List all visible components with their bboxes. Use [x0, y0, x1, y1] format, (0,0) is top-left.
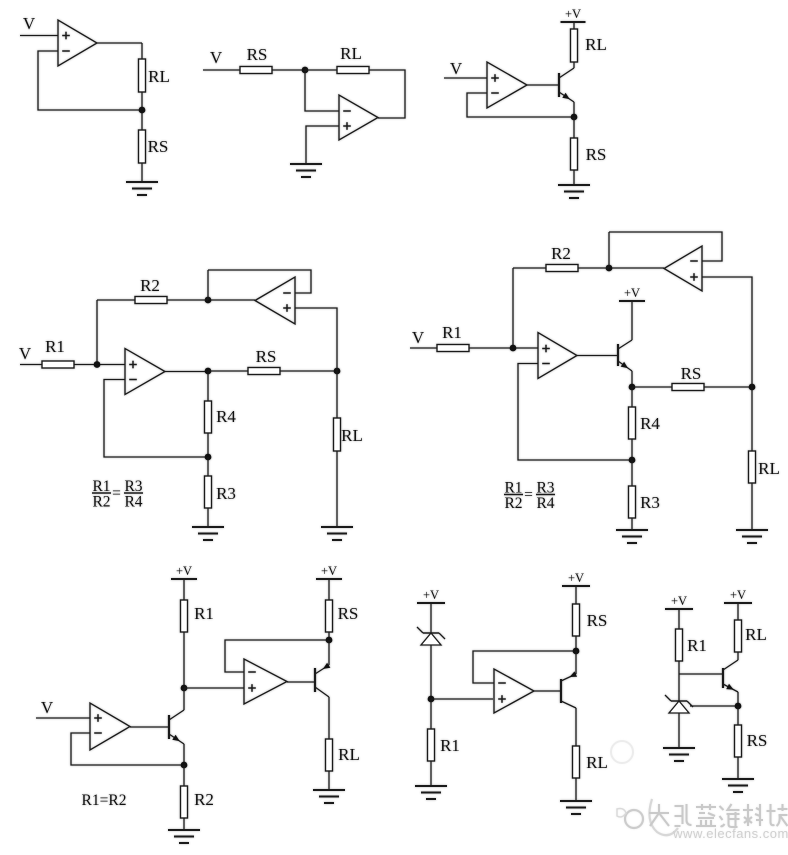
svg-text:R2: R2	[194, 790, 214, 809]
svg-text:RS: RS	[587, 611, 608, 630]
circuit6 node B	[181, 762, 188, 769]
circuit2 label RS	[247, 45, 268, 64]
circuit4 wire R1 to node	[74, 364, 125, 366]
circuit5 resistor RS	[672, 384, 704, 391]
svg-text:R1: R1	[687, 636, 707, 655]
circuit3 wire output to base	[527, 84, 558, 86]
svg-text:RS: RS	[247, 45, 268, 64]
circuit4 wire node E to R3	[207, 457, 209, 476]
svg-text:=: =	[112, 485, 121, 502]
circuit1 wire input +	[20, 35, 58, 37]
circuit5 label V	[412, 328, 425, 347]
circuit4 wire RS to node D	[280, 370, 337, 372]
circuit3 resistor RL	[571, 29, 578, 62]
circuit7 +V supply right	[562, 571, 590, 586]
circuit2 wire noninverting input	[306, 126, 339, 164]
svg-text:R2: R2	[504, 495, 522, 512]
circuit3 op-amp U1	[487, 62, 527, 108]
circuit8 resistor RL	[735, 620, 742, 652]
circuit6 resistor R2	[181, 786, 188, 818]
circuit6 wire collector down	[328, 697, 330, 739]
svg-text:R1: R1	[45, 337, 65, 356]
svg-text:RS: RS	[681, 364, 702, 383]
circuit4 wire U1 output	[165, 371, 208, 373]
circuit4 resistor RL	[334, 418, 341, 451]
circuit6 wire U1 feedback	[71, 733, 184, 765]
circuit6 label RL	[338, 745, 360, 764]
svg-text:R1: R1	[442, 323, 462, 342]
circuit7 wire node A to opamp	[431, 698, 493, 700]
circuit3 node A	[571, 114, 578, 121]
circuit1 resistor RS	[139, 130, 146, 163]
circuit6 resistor R1	[181, 600, 188, 632]
circuit6 transistor Q1	[169, 710, 184, 744]
svg-text:RL: RL	[148, 67, 170, 86]
svg-text:R4: R4	[124, 494, 142, 511]
circuit2 label V	[210, 48, 223, 67]
circuit7 ground left	[415, 786, 447, 799]
svg-text:V: V	[412, 328, 425, 347]
circuit5 node E	[629, 457, 636, 464]
circuit8 wire emitter to node	[737, 692, 739, 706]
circuit6 label RS	[338, 604, 359, 623]
circuit7 resistor RS	[573, 604, 580, 636]
circuit3 wire +V to RL	[573, 22, 575, 29]
circuit8 +V supply right	[724, 588, 752, 603]
circuit5 wire input	[410, 347, 437, 349]
circuit8 label R1	[687, 636, 707, 655]
circuit7 wire +V to RS	[575, 586, 577, 604]
circuit5 wire RL to ground	[751, 483, 753, 530]
circuit1 ground	[126, 182, 158, 195]
circuit2 label RL	[340, 44, 362, 63]
circuit8 ground left	[663, 748, 695, 761]
circuit5 resistor R2	[546, 265, 578, 272]
circuit1 label RS	[148, 137, 169, 156]
circuit5 wire left vertical	[512, 268, 514, 348]
svg-text:V: V	[23, 14, 36, 33]
circuit5 wire U2 noninverting	[702, 277, 752, 387]
circuit6 equation R1=R2	[82, 792, 127, 809]
circuit6 wire node A to collector	[183, 688, 185, 710]
circuit3 +V supply	[561, 7, 586, 22]
svg-text:+V: +V	[568, 571, 584, 585]
circuit5 node D	[749, 384, 756, 391]
circuit5 label RL	[758, 459, 780, 478]
circuit4 label RS	[256, 347, 277, 366]
circuit3 wire feedback	[467, 93, 574, 117]
circuit4 wire node to R4	[207, 371, 209, 401]
circuit4 wire U1 inverting	[104, 380, 208, 458]
circuit7 wire collector down	[575, 708, 577, 746]
circuit8 label RL	[745, 625, 767, 644]
circuit4 resistor R4	[205, 401, 212, 433]
circuit6 wire RL to ground	[328, 771, 330, 790]
circuit8 resistor RS	[735, 725, 742, 757]
svg-text:R2: R2	[140, 276, 160, 295]
circuit2 wire RS to node	[272, 69, 305, 71]
circuit5 wire U1 inverting	[518, 364, 632, 461]
svg-text:RS: RS	[256, 347, 277, 366]
circuit4 label V	[19, 344, 32, 363]
circuit6 +V supply 1	[171, 564, 197, 579]
circuit4 node B	[205, 297, 212, 304]
circuit4 wire RL to ground	[336, 451, 338, 527]
circuit5 label R1	[442, 323, 462, 342]
circuit6 label V	[41, 698, 54, 717]
circuit7 node B	[573, 648, 580, 655]
svg-text:RS: RS	[148, 137, 169, 156]
circuit5 wire node E to R3	[631, 460, 633, 486]
circuit5 resistor R3	[629, 486, 636, 518]
circuit7 wire U1 feedback	[473, 651, 576, 683]
circuit7 label RL	[586, 753, 608, 772]
circuit4 wire U2 noninverting	[295, 308, 337, 371]
circuit7 resistor RL	[573, 746, 580, 778]
circuit4 ground right	[321, 527, 353, 540]
circuit3 wire input +	[444, 77, 487, 79]
circuit4 node E	[205, 454, 212, 461]
circuit5 op-amp U2	[664, 246, 702, 291]
circuit5 resistor RL	[749, 451, 756, 483]
circuit5 +V supply	[619, 286, 645, 301]
svg-text:+V: +V	[423, 588, 439, 602]
circuit5 wire R2 segs	[513, 267, 609, 269]
circuit3 wire RL to collector	[573, 62, 575, 68]
circuit1 label V	[23, 14, 36, 33]
circuit5 wire node to R4	[631, 387, 633, 407]
circuit4 node C	[205, 368, 212, 375]
circuit7 wire zener to node A	[430, 645, 432, 699]
circuit3 wire RS to ground	[573, 170, 575, 185]
circuit7 wire +V to zener	[430, 603, 432, 633]
circuit7 transistor Q1	[561, 671, 577, 708]
circuit4 op-amp U2	[255, 277, 295, 324]
svg-text:RL: RL	[341, 426, 363, 445]
svg-text:V: V	[450, 59, 463, 78]
circuit7 label RS	[587, 611, 608, 630]
svg-text:R4: R4	[216, 407, 236, 426]
circuit4 label R4	[216, 407, 236, 426]
circuit2 resistor RS	[240, 67, 272, 74]
circuit1 wire RS to ground	[141, 163, 143, 182]
svg-text:RL: RL	[338, 745, 360, 764]
circuit1 label RL	[148, 67, 170, 86]
circuit7 wire node B to emitter	[575, 651, 577, 674]
circuit5 wire R4 to node E	[631, 439, 633, 460]
svg-text:V: V	[41, 698, 54, 717]
circuit5 wire RS to node D	[704, 386, 752, 388]
svg-text:+V: +V	[321, 564, 337, 578]
circuit1 wire feedback	[38, 51, 142, 110]
circuit6 wire +V to RS	[328, 579, 330, 600]
circuit1 node A	[139, 107, 146, 114]
circuit4 op-amp U1	[125, 349, 165, 395]
circuit6 resistor RS	[326, 600, 333, 632]
circuit7 wire RL to ground	[575, 778, 577, 801]
circuit5 label R3	[640, 493, 660, 512]
circuit5 wire node D to RL	[751, 387, 753, 451]
circuit3 label RL	[585, 35, 607, 54]
circuit4 label R3	[216, 484, 236, 503]
circuit8 wire R1 to junction	[678, 661, 680, 674]
circuit4 wire left vertical	[96, 300, 98, 365]
circuit8 transistor Q1	[723, 660, 738, 692]
circuit4 node A	[94, 361, 101, 368]
svg-text:RL: RL	[586, 753, 608, 772]
circuit7 node A	[428, 696, 435, 703]
svg-text:+V: +V	[565, 7, 581, 21]
circuit2 wire input	[203, 69, 240, 71]
svg-text:+V: +V	[730, 588, 746, 602]
circuit5 wire R3 to ground	[631, 518, 633, 530]
circuit3 label RS	[586, 145, 607, 164]
svg-text:RS: RS	[586, 145, 607, 164]
circuit6 label R1	[194, 604, 214, 623]
circuit6 wire node A to U2 input	[184, 687, 244, 689]
circuit4 node D	[334, 368, 341, 375]
circuit5 wire emitter to node	[631, 371, 633, 387]
circuit6 +V supply 2	[316, 564, 342, 579]
circuit4 label R1	[45, 337, 65, 356]
circuit4 resistor R2	[135, 297, 167, 304]
svg-text:R4: R4	[536, 495, 554, 512]
circuit8 +V supply left	[665, 594, 693, 609]
circuit4 ground left	[192, 527, 224, 540]
circuit2 wire inverting input	[305, 70, 339, 111]
circuit2 node A	[302, 67, 309, 74]
svg-text:R3: R3	[640, 493, 660, 512]
circuit8 label RS	[747, 731, 768, 750]
circuit2 resistor RL	[337, 67, 369, 74]
circuit3 transistor Q1	[559, 68, 574, 102]
circuit5 wire U1 output to base	[577, 355, 617, 357]
circuit5 resistor R4	[629, 407, 636, 439]
svg-text:RL: RL	[745, 625, 767, 644]
circuit5 label RS	[681, 364, 702, 383]
circuit5 wire node to RS	[632, 386, 672, 388]
svg-text:www.elecfans.com: www.elecfans.com	[672, 826, 788, 841]
circuit3 resistor RS	[571, 138, 578, 170]
circuit6 node A	[181, 685, 188, 692]
circuit6 wire R2 to ground	[183, 818, 185, 830]
circuit7 +V supply left	[417, 588, 445, 603]
svg-text:V: V	[19, 344, 32, 363]
svg-text:=: =	[524, 487, 533, 504]
circuit4 wire feedback down	[207, 270, 209, 300]
svg-text:R1: R1	[194, 604, 214, 623]
circuit8 ground right	[722, 779, 754, 792]
circuit1 wire RL to node	[141, 92, 143, 130]
svg-text:RL: RL	[758, 459, 780, 478]
svg-text:R2: R2	[551, 244, 571, 263]
circuit4 label RL	[341, 426, 363, 445]
svg-text:+V: +V	[624, 286, 640, 300]
circuit4 equation R1/R2=R3/R4	[92, 478, 143, 511]
circuit5 label R2	[551, 244, 571, 263]
circuit2 ground	[290, 164, 322, 177]
circuit5 wire +V to collector	[631, 301, 633, 340]
circuit6 label R2	[194, 790, 214, 809]
circuit4 resistor R1	[42, 361, 74, 368]
circuit5 op-amp U1	[538, 333, 577, 379]
circuit6 node C	[326, 637, 333, 644]
circuit5 ground left	[616, 530, 648, 543]
circuit3 label V	[450, 59, 463, 78]
circuit7 op-amp U1	[494, 669, 534, 713]
circuit8 zener diode D1	[665, 695, 693, 713]
watermark faint circle	[611, 741, 633, 763]
circuit4 wire U2 feedback top	[208, 270, 311, 293]
circuit4 wire input	[20, 364, 42, 366]
circuit5 transistor Q1	[618, 340, 632, 371]
svg-text:RL: RL	[340, 44, 362, 63]
circuit6 resistor RL	[326, 739, 333, 771]
circuit8 wire zener to ground	[678, 713, 680, 748]
circuit6 wire U1 output to base	[130, 726, 168, 728]
svg-text:RS: RS	[338, 604, 359, 623]
circuit7 wire RS to node B	[575, 636, 577, 651]
svg-text:R4: R4	[640, 414, 660, 433]
circuit5 ground right	[736, 530, 768, 543]
svg-text:R1: R1	[440, 736, 460, 755]
circuit6 wire node C to emitter	[328, 640, 330, 665]
circuit6 wire RS to node C	[328, 632, 330, 640]
circuit1 wire output	[97, 43, 142, 59]
circuit5 wire U2 output	[609, 267, 664, 269]
circuit6 wire +V to R1	[183, 579, 185, 600]
circuit8 node A	[735, 703, 742, 710]
circuit6 wire U2 feedback	[225, 640, 329, 672]
circuit8 wire +V to R1	[678, 609, 680, 629]
circuit8 wire junction to zener	[678, 674, 680, 701]
circuit5 label R4	[640, 414, 660, 433]
circuit4 wire R3 to ground	[207, 508, 209, 527]
circuit7 wire node A to R1	[430, 699, 432, 729]
circuit5 node C	[629, 384, 636, 391]
circuit7 ground right	[560, 801, 592, 814]
svg-text:R3: R3	[216, 484, 236, 503]
circuit7 label R1	[440, 736, 460, 755]
circuit4 resistor RS	[248, 368, 280, 375]
circuit6 op-amp U1	[90, 703, 130, 750]
circuit8 wire node to RS	[737, 706, 739, 725]
circuit6 wire R1 to node A	[183, 632, 185, 688]
circuit6 wire emitter to node B	[183, 744, 185, 765]
circuit6 op-amp U2	[244, 659, 287, 704]
circuit4 wire R2 left	[97, 299, 208, 301]
circuit8 wire zener to node	[690, 705, 738, 707]
watermark logo	[617, 799, 678, 835]
circuit5 wire R1 to opamp	[469, 347, 538, 349]
svg-text:RL: RL	[585, 35, 607, 54]
circuit6 ground 1	[168, 830, 200, 843]
circuit1 resistor RL	[139, 59, 146, 92]
watermark url www.elecfans.com	[672, 826, 788, 841]
circuit5 node A	[510, 345, 517, 352]
circuit8 wire +V to RL	[737, 603, 739, 620]
circuit5 wire U2 feedback top	[609, 232, 722, 261]
circuit3 wire node to RS	[573, 117, 575, 138]
circuit6 wire node B to R2	[183, 765, 185, 786]
circuit6 ground 2	[313, 790, 345, 803]
circuit7 resistor R1	[428, 729, 435, 761]
circuit2 wire RL to output	[369, 70, 405, 118]
circuit6 transistor Q2	[315, 663, 330, 697]
circuit4 resistor R3	[205, 476, 212, 508]
svg-text:V: V	[210, 48, 223, 67]
svg-text:+V: +V	[671, 594, 687, 608]
svg-text:+V: +V	[176, 564, 192, 578]
circuit7 zener diode D1	[417, 627, 445, 645]
svg-text:RS: RS	[747, 731, 768, 750]
circuit8 wire RS to ground	[737, 757, 739, 779]
circuit5 resistor R1	[437, 345, 469, 352]
circuit5 node B	[606, 265, 613, 272]
circuit4 wire U2 output	[208, 299, 255, 301]
circuit3 ground	[558, 185, 590, 198]
circuit1 op-amp U1	[58, 20, 97, 66]
svg-text:R1=R2: R1=R2	[82, 792, 127, 809]
circuit2 wire node to RL	[305, 69, 337, 71]
circuit7 wire R1 to ground	[430, 761, 432, 786]
circuit8 wire RL to collector	[737, 652, 739, 660]
circuit7 wire U1 output to base	[534, 690, 560, 692]
watermark text 大印蓝海科技	[649, 804, 788, 827]
circuit4 label R2	[140, 276, 160, 295]
circuit2 op-amp U1	[339, 95, 378, 140]
circuit5 wire feedback down	[608, 232, 610, 268]
circuit6 wire U2 output to base	[287, 681, 314, 683]
circuit3 wire emitter to node	[573, 102, 575, 117]
circuit8 resistor R1	[676, 629, 683, 661]
circuit4 wire node to RS	[208, 370, 248, 372]
circuit5 equation R1/R2=R3/R4	[504, 480, 555, 513]
circuit6 wire input	[36, 717, 90, 719]
circuit4 wire node D to RL	[336, 371, 338, 418]
circuit8 wire base	[679, 673, 722, 675]
circuit4 wire R4 to node E	[207, 433, 209, 457]
svg-text:R2: R2	[92, 494, 110, 511]
